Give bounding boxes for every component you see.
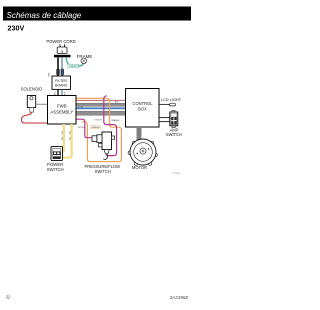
lcd light icon <box>170 103 176 106</box>
yellow wire 1 to power switch <box>61 124 64 152</box>
wire to lcd light <box>159 104 170 106</box>
wires to amp switch <box>159 117 170 119</box>
svg-text:BOARD: BOARD <box>55 83 68 87</box>
grey wire solenoid to fwb <box>36 103 48 105</box>
svg-text:SWITCH: SWITCH <box>95 169 111 174</box>
solenoid body <box>27 96 35 113</box>
pressure/flow switch body <box>92 132 115 160</box>
orange wire loop around pressure switch <box>76 98 121 161</box>
wire blue filter to fwb <box>61 89 63 96</box>
svg-text:SOLENOID: SOLENOID <box>21 86 43 91</box>
svg-text:BLU: BLU <box>65 91 67 95</box>
svg-text:YEL: YEL <box>70 131 72 135</box>
wire bundle fwb to control box: thin black <box>76 99 126 101</box>
svg-text:GREEN: GREEN <box>69 65 78 68</box>
motor <box>128 139 157 165</box>
svg-text:ti7956a: ti7956a <box>172 171 181 175</box>
power cord plug <box>57 44 67 53</box>
green ground wire <box>66 57 84 66</box>
svg-text:ORANGE: ORANGE <box>111 119 120 122</box>
violet wire loop to pressure switch bottom <box>104 96 117 156</box>
grey band upper <box>76 103 126 106</box>
svg-text:ORANGE: ORANGE <box>91 126 100 129</box>
svg-text:SWITCH: SWITCH <box>47 167 64 172</box>
svg-text:YEL: YEL <box>62 137 64 141</box>
svg-text:ASSEMBLY: ASSEMBLY <box>50 109 73 114</box>
wire black from cord <box>57 57 59 78</box>
svg-text:MOTOR: MOTOR <box>132 165 147 170</box>
wire black filter to fwb <box>57 89 59 96</box>
amp switch icon <box>170 110 178 127</box>
svg-text:FWB: FWB <box>57 104 67 109</box>
svg-text:3A2396E: 3A2396E <box>170 295 190 300</box>
svg-text:BOX: BOX <box>138 106 147 111</box>
svg-text:Schémas de câblage: Schémas de câblage <box>7 11 82 20</box>
green wire label <box>68 64 79 68</box>
control box <box>126 89 160 128</box>
svg-text:230V: 230V <box>8 23 25 32</box>
motor shaft lead <box>137 127 142 140</box>
grey band lower <box>76 111 126 115</box>
frame ground screw <box>81 58 87 64</box>
red solenoid wire <box>22 112 48 123</box>
inline connectors <box>56 69 59 76</box>
header bar <box>3 7 191 21</box>
blue wire fwb to control box <box>76 107 126 109</box>
svg-text:32: 32 <box>6 294 11 299</box>
svg-text:POWER CORD: POWER CORD <box>46 39 75 44</box>
svg-text:VIOLET: VIOLET <box>78 127 86 129</box>
svg-text:YEL: YEL <box>62 131 64 135</box>
svg-text:VIOLET: VIOLET <box>95 120 103 122</box>
svg-text:YEL: YEL <box>70 137 72 141</box>
yellow wire 2 to power switch <box>62 124 72 158</box>
svg-text:SWITCH: SWITCH <box>166 132 182 137</box>
svg-text:FILTER: FILTER <box>55 79 67 83</box>
FWB assembly box <box>48 96 77 125</box>
svg-text:LCD LIGHT: LCD LIGHT <box>161 97 182 102</box>
wire blue from cord <box>61 57 63 78</box>
power cord grommet bar <box>54 55 71 58</box>
label ORANGE box <box>91 126 101 129</box>
filter board U-FB <box>52 76 71 89</box>
violet wire to pressure switch plug <box>76 119 92 138</box>
power switch <box>51 146 63 160</box>
